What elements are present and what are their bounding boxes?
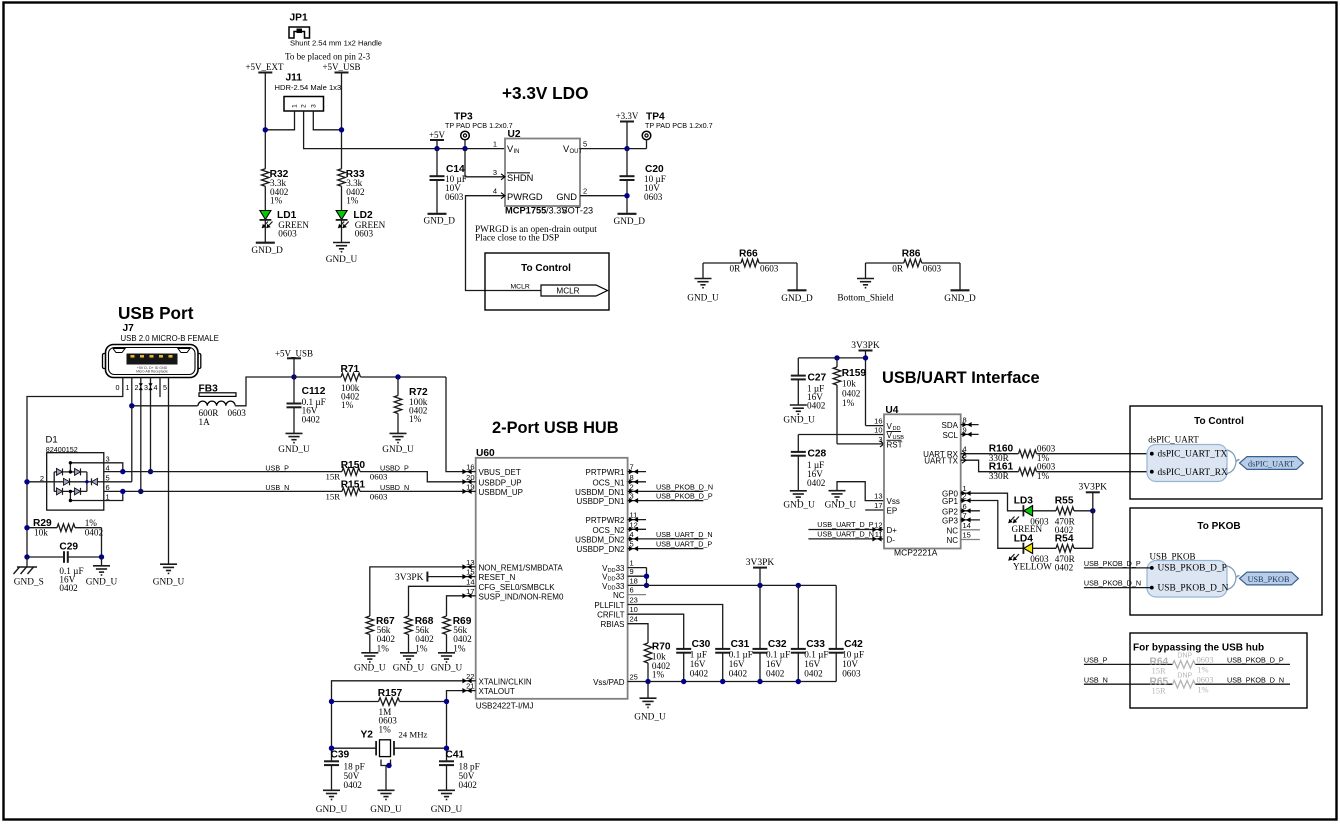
U60 pin 9 VDD33 <box>602 567 634 582</box>
svg-text:dsPIC_UART: dsPIC_UART <box>1148 434 1199 444</box>
svg-text:C112: C112 <box>302 386 326 397</box>
svg-text:SDA: SDA <box>942 421 959 430</box>
resistor R54 <box>1033 534 1093 573</box>
J7 pin numbers <box>116 383 168 392</box>
wire +5V_EXT vertical <box>264 73 266 169</box>
svg-text:1%: 1% <box>346 196 359 206</box>
svg-text:C32: C32 <box>768 639 787 650</box>
svg-text:C27: C27 <box>808 373 827 384</box>
LED LD3 GREEN <box>1009 496 1049 535</box>
wire LD2 to GND_U <box>341 220 343 243</box>
svg-text:LD4: LD4 <box>1014 534 1034 545</box>
power flag 3V3PK (RESET_N) <box>395 572 462 583</box>
wire R86 right to ground <box>959 263 961 290</box>
svg-text:GND_U: GND_U <box>326 255 358 265</box>
svg-text:To be placed on pin 2-3: To be placed on pin 2-3 <box>285 52 371 62</box>
svg-text:YELLOW: YELLOW <box>1013 562 1052 572</box>
svg-text:GND_U: GND_U <box>687 294 719 304</box>
svg-text:9: 9 <box>630 567 634 576</box>
ground GND_D (R66) <box>781 290 813 304</box>
wire Vss ground drop <box>647 682 649 698</box>
net label USB_N (bypass) <box>1084 675 1108 684</box>
svg-text:3V3PK: 3V3PK <box>395 573 424 583</box>
wire RST <box>837 441 884 447</box>
svg-text:J11: J11 <box>286 73 303 84</box>
junction VDD33 pin18 <box>644 583 649 588</box>
junction Y2 left <box>329 746 334 751</box>
wire SDA stub <box>961 422 979 427</box>
U60 pin 12 OCS_N2 <box>592 520 646 535</box>
svg-text:To Control: To Control <box>521 263 571 274</box>
net label USB_PKOB_D_P (in) <box>1084 559 1141 568</box>
wire J11 pin3 to +5V_USB <box>313 111 341 130</box>
junction +5V_USB/C112 <box>291 374 296 379</box>
svg-text:0402: 0402 <box>453 634 472 644</box>
wire GP2 stub <box>961 508 980 513</box>
resistor R159 <box>833 358 866 444</box>
svg-text:Y2: Y2 <box>361 730 374 741</box>
ground GND_U (R67) <box>354 653 386 674</box>
svg-text:DNP: DNP <box>1177 653 1192 660</box>
resistor R70 <box>644 642 671 682</box>
svg-text:15R: 15R <box>1152 666 1167 676</box>
svg-text:3: 3 <box>493 168 497 177</box>
ground GND_D (C14) <box>424 214 456 227</box>
svg-text:CRFILT: CRFILT <box>597 611 625 620</box>
svg-text:OUT: OUT <box>570 149 583 155</box>
svg-text:10k: 10k <box>652 652 666 662</box>
svg-text:15R: 15R <box>326 472 341 482</box>
wire R161 to dsPIC_UART_RX <box>1037 471 1152 473</box>
svg-text:USB_PKOB_D_P: USB_PKOB_D_P <box>1158 564 1227 574</box>
ferrite bead FB3 <box>198 384 246 428</box>
ground GND_U (Y2) <box>370 790 402 815</box>
svg-text:+5V_USB: +5V_USB <box>275 348 313 358</box>
wire USB_P row <box>104 471 342 473</box>
junction D+ / USB_P <box>148 469 153 474</box>
svg-text:TP PAD PCB 1.2x0.7: TP PAD PCB 1.2x0.7 <box>445 121 513 130</box>
title 2-Port USB HUB <box>492 419 619 437</box>
svg-text:RBIAS: RBIAS <box>600 620 624 629</box>
wire PLLFILT to C31 <box>628 605 723 649</box>
wire J11 pin2 to +5V rail <box>304 111 505 149</box>
svg-text:15R: 15R <box>1152 686 1167 696</box>
svg-text:0603: 0603 <box>1197 655 1214 665</box>
resistor R160 <box>961 444 1056 464</box>
resistor R64 DNP <box>1150 653 1214 676</box>
junction VDD33 pin9 <box>644 574 649 579</box>
svg-text:R71: R71 <box>341 364 360 375</box>
wire R66 right to ground <box>796 263 798 290</box>
jumper JP1 <box>289 13 382 48</box>
svg-text:USB_PKOB_D_N: USB_PKOB_D_N <box>1227 675 1284 684</box>
svg-text:GND_U: GND_U <box>86 578 118 588</box>
svg-text:Micro-AB Receptacle: Micro-AB Receptacle <box>136 370 168 374</box>
svg-text:C30: C30 <box>692 639 711 650</box>
svg-text:U2: U2 <box>508 129 521 140</box>
resistor R65 DNP <box>1150 673 1214 696</box>
svg-text:GND: GND <box>556 192 577 202</box>
note PWRGD open-drain <box>475 225 597 244</box>
svg-text:0R: 0R <box>730 264 742 274</box>
title USB Port <box>118 303 194 323</box>
svg-text:NON_REM1/SMBDATA: NON_REM1/SMBDATA <box>479 563 564 572</box>
svg-text:USB_UART_D_N: USB_UART_D_N <box>656 530 713 539</box>
svg-text:R54: R54 <box>1055 534 1074 545</box>
svg-text:USBDM_DN1: USBDM_DN1 <box>575 488 625 497</box>
svg-text:C41: C41 <box>446 750 465 761</box>
net label USB_PKOB_D_P (bypass) <box>1227 656 1284 665</box>
ground GND_U (R66) <box>687 279 719 304</box>
wire FB3 to +5V_USB rail <box>235 377 294 406</box>
junction D- / USB_N <box>138 489 143 494</box>
svg-text:PRTPWR1: PRTPWR1 <box>586 468 626 477</box>
svg-text:JP1: JP1 <box>290 13 308 24</box>
svg-text:330R: 330R <box>989 471 1010 481</box>
svg-text:0603: 0603 <box>370 472 388 482</box>
box For bypassing the USB hub <box>1130 633 1307 708</box>
svg-text:0402: 0402 <box>729 669 748 679</box>
svg-text:PLLFILT: PLLFILT <box>594 601 624 610</box>
power flag +5V_EXT <box>245 62 284 73</box>
box To Control (dsPIC_UART) <box>1130 406 1322 499</box>
wire D- (U4) <box>808 536 884 541</box>
junction Y2 case <box>386 763 391 768</box>
junction 3V3PK/R159 <box>834 355 839 360</box>
wire USB_PKOB_D_P in <box>1084 567 1152 569</box>
net label USBD_P <box>380 463 409 472</box>
svg-text:GND_D: GND_D <box>424 216 456 226</box>
wire USBD_N to USBDM_UP <box>360 490 462 492</box>
svg-text:16V: 16V <box>766 659 782 669</box>
svg-text:C39: C39 <box>331 750 350 761</box>
harness USB_PKOB <box>1147 551 1298 597</box>
ground GND_U (C28) <box>783 491 815 511</box>
svg-text:GND_U: GND_U <box>354 664 386 674</box>
ground GND_D (C20) <box>614 214 646 227</box>
U60 pin 21 XTALOUT <box>462 682 515 697</box>
capacitor C14 <box>430 149 467 214</box>
svg-text:USBDP_UP: USBDP_UP <box>479 478 522 487</box>
junction R72 <box>395 374 400 379</box>
svg-text:Shunt 2.54 mm 1x2 Handle: Shunt 2.54 mm 1x2 Handle <box>290 39 382 48</box>
U60 pin 10 CRFILT <box>597 605 638 620</box>
svg-text:RST: RST <box>887 441 903 450</box>
svg-text:0402: 0402 <box>459 780 478 790</box>
svg-text:0402: 0402 <box>344 780 363 790</box>
svg-text:1: 1 <box>493 140 497 149</box>
svg-text:0402: 0402 <box>807 478 826 488</box>
svg-text:R151: R151 <box>341 480 366 491</box>
svg-text:0603: 0603 <box>1197 675 1214 685</box>
svg-text:10k: 10k <box>842 379 856 389</box>
svg-text:SUSP_IND/NON-REM0: SUSP_IND/NON-REM0 <box>479 592 564 601</box>
svg-text:2: 2 <box>301 104 308 108</box>
wire 3V3 distribution <box>647 584 837 586</box>
node dsPIC_UART_TX <box>1150 449 1228 459</box>
svg-text:0603: 0603 <box>842 669 861 679</box>
svg-text:14: 14 <box>963 521 971 530</box>
svg-text:2-Port USB HUB: 2-Port USB HUB <box>492 419 619 437</box>
svg-text:3V3PK: 3V3PK <box>851 341 880 351</box>
svg-text:USB_PKOB: USB_PKOB <box>1150 551 1196 561</box>
node USB_PKOB_D_P <box>1150 564 1227 574</box>
U60 pin 14 CFG_SEL0/SMBCLK <box>462 577 555 592</box>
net label USB_UART_D_P (U4) <box>817 520 873 529</box>
svg-text:0402: 0402 <box>807 401 826 411</box>
svg-text:1%: 1% <box>85 518 98 528</box>
resistor R33 <box>338 169 365 206</box>
svg-text:1%: 1% <box>1197 665 1208 675</box>
connector J11 HDR-2.54 Male 1x3 <box>275 73 342 112</box>
svg-text:dsPIC_UART_RX: dsPIC_UART_RX <box>1158 468 1229 478</box>
svg-text:GND_U: GND_U <box>825 501 857 511</box>
svg-text:18: 18 <box>630 576 638 585</box>
svg-text:dsPIC_UART_TX: dsPIC_UART_TX <box>1158 449 1228 459</box>
svg-text:To Control: To Control <box>1194 416 1244 427</box>
capacitor C28 <box>791 435 827 491</box>
power flag +5V_USB (top) <box>322 62 360 73</box>
svg-text:SCL: SCL <box>942 431 958 440</box>
wire D1 pin3 tie <box>104 463 123 472</box>
svg-text:MCP1755: MCP1755 <box>505 206 546 216</box>
svg-text:GND_U: GND_U <box>316 805 348 815</box>
svg-text:0402: 0402 <box>377 634 396 644</box>
svg-text:OCS_N2: OCS_N2 <box>592 526 625 535</box>
svg-text:GND_U: GND_U <box>783 416 815 426</box>
wire D+ (U4) <box>808 527 884 532</box>
svg-text:C33: C33 <box>806 639 825 650</box>
svg-text:0603: 0603 <box>278 229 297 239</box>
net label USB_P (bypass) <box>1084 656 1108 665</box>
svg-text:TP PAD PCB 1.2x0.7: TP PAD PCB 1.2x0.7 <box>645 121 713 130</box>
svg-text:MCP2221A: MCP2221A <box>894 548 938 558</box>
svg-text:USB_UART_D_P: USB_UART_D_P <box>656 540 712 549</box>
regulator U2 MCP1755 <box>493 129 593 216</box>
svg-text:5: 5 <box>583 140 587 149</box>
resistor R66 <box>703 249 797 274</box>
svg-text:U4: U4 <box>885 405 898 416</box>
ground GND_U (C29) <box>86 566 118 588</box>
wire XTALIN rail <box>332 681 463 762</box>
svg-text:USB Port: USB Port <box>118 303 194 323</box>
capacitor C27 <box>791 358 827 411</box>
svg-text:+3.3V: +3.3V <box>616 111 639 121</box>
U60 pin 25 Vss/PAD <box>593 673 638 688</box>
junction Vss rail x648 <box>645 679 650 684</box>
junction 3V3PK flag (U4) <box>863 355 868 360</box>
svg-text:EP: EP <box>887 507 898 516</box>
wire XTALOUT rail <box>447 691 463 762</box>
svg-text:0402: 0402 <box>59 583 78 593</box>
svg-text:0603: 0603 <box>370 492 388 502</box>
wire EP stub <box>865 509 884 511</box>
svg-text:25: 25 <box>630 673 638 682</box>
wire R71 to R72/VBUS_DET <box>361 376 447 378</box>
svg-text:GND_U: GND_U <box>634 713 666 723</box>
svg-text:0603: 0603 <box>760 264 779 274</box>
svg-text:GND_D: GND_D <box>251 246 283 256</box>
wire USB_PKOB_D_N in <box>1084 587 1152 589</box>
junction C29 right <box>99 554 104 559</box>
svg-text:To PKOB: To PKOB <box>1197 521 1240 532</box>
LED LD1 GREEN <box>260 210 310 239</box>
svg-text:Place close to the DSP: Place close to the DSP <box>475 234 559 244</box>
resistor R55 <box>1033 496 1093 536</box>
wire D1 pin5 to VBUS <box>131 406 133 482</box>
wire J7 D+ pin3 <box>148 378 152 472</box>
svg-text:16V: 16V <box>729 659 745 669</box>
resistor R69 <box>443 616 472 654</box>
svg-text:VBUS_DET: VBUS_DET <box>479 468 521 477</box>
svg-text:GP2: GP2 <box>942 507 959 516</box>
net label USB_PKOB_D_N (bypass) <box>1227 675 1284 684</box>
svg-text:GND_U: GND_U <box>382 445 414 455</box>
junction C29 left <box>24 554 29 559</box>
junction USB_N tie <box>120 489 125 494</box>
wire CRFILT to C30 <box>628 614 684 649</box>
box To PKOB <box>1130 508 1322 615</box>
net label USB_N <box>265 483 289 492</box>
svg-text:C31: C31 <box>731 639 750 650</box>
net label USB_P <box>265 463 289 472</box>
capacitor C32 <box>753 585 791 681</box>
svg-text:10 µF: 10 µF <box>842 650 864 660</box>
wire PWRGD to MCLR <box>466 193 542 291</box>
wire VOUT rail <box>580 148 647 150</box>
junction 3V3PK flag <box>757 583 762 588</box>
wire to GND_S <box>26 557 28 567</box>
svg-text:1: 1 <box>126 383 130 392</box>
svg-text:3V3PK: 3V3PK <box>746 558 775 568</box>
svg-text:1A: 1A <box>199 417 211 427</box>
svg-text:13: 13 <box>874 492 882 501</box>
junction TP3 <box>462 146 467 151</box>
svg-text:NC: NC <box>946 526 958 535</box>
bridge U4 MCP2221A <box>874 405 971 558</box>
ground GND_U (hub) <box>634 698 666 722</box>
wire R29 right drop <box>101 528 103 557</box>
wire GP3 stub <box>961 517 980 522</box>
svg-text:1%: 1% <box>377 644 390 654</box>
svg-text:GND_U: GND_U <box>278 445 310 455</box>
wire RBIAS to R70 <box>628 624 648 643</box>
svg-text:0402: 0402 <box>85 528 104 538</box>
svg-text:1%: 1% <box>453 644 466 654</box>
U60 pin 23 PLLFILT <box>594 596 637 611</box>
node USB_PKOB_D_N <box>1150 583 1229 593</box>
svg-text:PWRGD: PWRGD <box>507 192 543 202</box>
resistor R67 <box>366 616 395 654</box>
svg-text:C42: C42 <box>844 639 863 650</box>
svg-text:1%: 1% <box>842 398 855 408</box>
svg-text:17: 17 <box>874 501 882 510</box>
svg-text:18 pF: 18 pF <box>459 762 480 772</box>
U60 pin 3 USBDP_DN1 <box>576 492 712 507</box>
ground GND_U (U4 Vss) <box>825 491 857 511</box>
svg-text:USBD_P: USBD_P <box>380 463 409 472</box>
harness dsPIC_UART <box>1147 434 1303 481</box>
junction Vss rail x760 <box>757 679 762 684</box>
svg-text:1%: 1% <box>379 725 392 735</box>
svg-text:USBDP_DN1: USBDP_DN1 <box>576 497 625 506</box>
svg-text:15: 15 <box>963 531 971 540</box>
wire VUSB <box>798 434 884 436</box>
connector J7 USB 2.0 MICRO-B FEMALE <box>103 323 219 378</box>
svg-text:USB_PKOB_D_N: USB_PKOB_D_N <box>656 482 713 491</box>
junction USB_P tie <box>120 469 125 474</box>
box To Control (MCLR) <box>485 253 609 310</box>
note: To be placed on pin 2-3 <box>285 52 371 62</box>
svg-text:For bypassing the USB hub: For bypassing the USB hub <box>1133 643 1264 654</box>
ground GND_S chassis <box>14 567 44 588</box>
svg-text:MCLR: MCLR <box>556 287 579 296</box>
title USB/UART Interface <box>882 369 1040 387</box>
wire Vss <box>837 482 884 501</box>
svg-text:CFG_SEL0/SMBCLK: CFG_SEL0/SMBCLK <box>479 583 556 592</box>
svg-text:4: 4 <box>493 187 497 196</box>
svg-text:MCLR: MCLR <box>511 283 530 290</box>
svg-text:1: 1 <box>292 104 299 108</box>
svg-text:USBDM_UP: USBDM_UP <box>479 488 523 497</box>
svg-text:R159: R159 <box>842 368 867 379</box>
wire J7 ID pin4 stub <box>159 378 161 398</box>
junction Vss rail x722 <box>720 679 725 684</box>
hub U60 USB2422 <box>476 448 628 711</box>
U60 pin 11 PRTPWR2 <box>586 511 646 526</box>
resistor R68 <box>405 616 434 654</box>
resistor R29 <box>27 518 103 538</box>
svg-text:UART TX: UART TX <box>924 457 958 466</box>
svg-text:0.1 µF: 0.1 µF <box>729 650 753 660</box>
svg-text:Bottom_Shield: Bottom_Shield <box>837 294 894 304</box>
svg-text:GND_U: GND_U <box>783 501 815 511</box>
svg-text:GP1: GP1 <box>942 497 959 506</box>
title +3.3V LDO <box>502 83 588 103</box>
junction Y2 right <box>444 746 449 751</box>
capacitor C41 <box>439 750 480 791</box>
ground Bottom_Shield (R86) <box>837 279 894 304</box>
svg-text:GND_U: GND_U <box>431 805 463 815</box>
svg-text:USB_PKOB: USB_PKOB <box>1248 575 1290 584</box>
net label USB_UART_D_N (U4) <box>817 530 874 539</box>
svg-text:6: 6 <box>630 586 634 595</box>
svg-text:0R: 0R <box>892 264 904 274</box>
svg-text:SOT-23: SOT-23 <box>562 206 594 216</box>
svg-text:GND_U: GND_U <box>370 805 402 815</box>
svg-text:0603: 0603 <box>445 192 464 202</box>
svg-text:+5V_EXT: +5V_EXT <box>245 62 284 72</box>
resistor R86 <box>866 249 961 274</box>
svg-text:0402: 0402 <box>766 669 785 679</box>
svg-text:LD3: LD3 <box>1014 496 1034 507</box>
svg-text:2: 2 <box>135 383 139 392</box>
svg-text:18 pF: 18 pF <box>344 762 365 772</box>
port MCLR <box>511 283 608 296</box>
svg-text:GND_D: GND_D <box>944 294 976 304</box>
wire 3V3PK branch <box>798 357 865 359</box>
wire VDD33 rail <box>628 568 647 586</box>
wire NC15 stub <box>961 539 980 541</box>
svg-text:0603: 0603 <box>644 192 663 202</box>
U60 pin 4 USBDM_DN2 <box>575 530 712 545</box>
svg-text:SHDN: SHDN <box>507 173 533 183</box>
svg-text:0.1 µF: 0.1 µF <box>766 650 790 660</box>
junction Vss rail x683 <box>681 679 686 684</box>
U60 pin 17 SUSP_IND/NON-REM0 <box>462 587 564 602</box>
junction R157 right <box>444 699 449 704</box>
svg-text:0402: 0402 <box>1055 563 1074 573</box>
